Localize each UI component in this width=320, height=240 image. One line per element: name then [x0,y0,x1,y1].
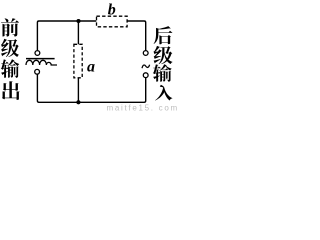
bottom wire [37,74,145,102]
terminal circle (left top) [35,51,40,56]
dashed box b (series component placeholder) [97,16,128,27]
dashed box a (shunt component placeholder) [74,44,82,78]
inductor winding L [26,60,57,65]
AC tilde symbol [142,65,150,69]
char 级 (right col) [154,46,173,64]
inductor core bar [26,58,55,60]
char 入 (right col) [155,85,172,101]
wire middle vertical from junction to box a [77,21,79,44]
terminal circle (left bottom) [35,69,40,74]
char 输 (left col) [1,59,19,78]
node junction dot on top wire [76,19,80,23]
char 后 (right col) [154,26,173,44]
terminal circle (right top) [143,51,148,56]
node junction dot on bottom wire [76,100,80,104]
terminal circle (right bottom) [143,73,148,78]
svg-text:maitfe15. com: maitfe15. com [107,103,179,112]
char 出 (left col) [2,81,20,100]
char 输 (right col) [153,64,172,82]
wire from box b right edge to top-right corner, down to terminal [127,21,146,51]
wire middle vertical from box a down to bottom wire [77,78,79,103]
svg-text:b: b [108,1,116,18]
char 前 (left col) [1,18,19,36]
wire top-left L: left vertical + top wire to dashed box b [37,21,96,50]
char 级 (left col) [1,39,19,57]
svg-text:a: a [87,59,95,76]
